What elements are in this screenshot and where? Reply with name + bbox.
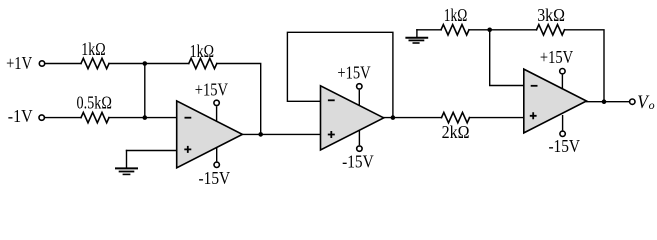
wire (587, 101, 630, 103)
ground under op-amp U1 (115, 168, 138, 174)
op-amp U1 +15V supply (195, 79, 228, 121)
node -1V input terminal (39, 115, 44, 120)
svg-text:+1V: +1V (6, 53, 32, 73)
wire (127, 150, 177, 152)
wire (144, 64, 146, 118)
junction node E (R5-R6) (487, 28, 492, 33)
wire (470, 117, 524, 119)
junction node C (op1 output) (258, 132, 263, 137)
wire (45, 63, 81, 65)
svg-text:1kΩ: 1kΩ (190, 41, 214, 61)
wire (109, 117, 177, 119)
svg-text:2kΩ: 2kΩ (442, 122, 470, 142)
wire (565, 30, 605, 102)
svg-text:0.5kΩ: 0.5kΩ (76, 93, 111, 113)
svg-text:+15V: +15V (337, 62, 370, 82)
wire feedback loop U2 (287, 32, 393, 117)
svg-text:1kΩ: 1kΩ (81, 39, 105, 59)
wire (109, 63, 145, 65)
resistor R5 1k ohm zigzag (441, 25, 469, 35)
node Vo output terminal (630, 99, 635, 104)
ground stem under op-amp U1 (126, 151, 128, 168)
svg-text:-15V: -15V (548, 136, 580, 156)
op-amp U3 (524, 69, 587, 133)
op-amp U2 (321, 86, 384, 150)
op-amp U3 +15V supply (540, 47, 573, 90)
junction node F (op3 output) (602, 99, 607, 104)
op-amp U3 -15V supply (548, 115, 580, 156)
resistor R3 0.5k ohm zigzag (81, 112, 109, 122)
resistor R1 1k ohm zigzag (81, 58, 109, 68)
svg-text:-15V: -15V (342, 152, 374, 172)
svg-text:o: o (649, 98, 655, 112)
svg-text:3kΩ: 3kΩ (537, 5, 565, 25)
resistor R2 1k ohm feedback zigzag (189, 58, 217, 68)
op-amp U1 -15V supply (199, 147, 231, 188)
ground stem top right (416, 30, 418, 38)
op-amp U1 (177, 101, 243, 168)
junction node D (op2 output) (391, 115, 396, 120)
svg-text:+15V: +15V (540, 47, 573, 67)
svg-text:-1V: -1V (8, 106, 33, 126)
ground symbol top right (405, 38, 428, 43)
node +1V input terminal (39, 61, 44, 66)
junction node B (op1 minus input) (143, 115, 148, 120)
svg-text:-15V: -15V (199, 168, 231, 188)
wire (469, 29, 537, 31)
wire (217, 64, 261, 135)
wire (417, 29, 441, 31)
resistor R4 2k ohm zigzag (442, 112, 470, 122)
wire (145, 63, 189, 65)
wire (490, 30, 524, 86)
wire (45, 117, 81, 119)
resistor R6 3k ohm zigzag (537, 25, 565, 35)
junction node A (summing) (143, 61, 148, 66)
op-amp U2 +15V supply (337, 62, 370, 105)
svg-text:1kΩ: 1kΩ (444, 5, 468, 25)
wire (384, 117, 442, 119)
op-amp U2 -15V supply (342, 131, 374, 172)
svg-text:+15V: +15V (195, 79, 228, 99)
wire (242, 133, 320, 135)
